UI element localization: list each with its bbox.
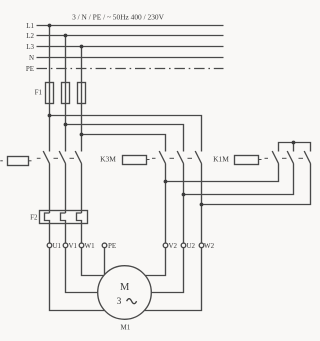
svg-text:L2: L2 xyxy=(26,32,34,40)
svg-text:V1: V1 xyxy=(69,242,78,250)
svg-text:3: 3 xyxy=(117,297,122,307)
svg-text:3 / N / PE / ~ 50Hz 400 / 230V: 3 / N / PE / ~ 50Hz 400 / 230V xyxy=(72,13,165,22)
svg-text:F1: F1 xyxy=(35,89,43,97)
svg-text:W1: W1 xyxy=(85,242,96,250)
svg-text:PE: PE xyxy=(26,65,34,73)
svg-text:PE: PE xyxy=(108,242,116,250)
svg-text:U2: U2 xyxy=(187,242,196,250)
svg-text:N: N xyxy=(29,54,34,62)
svg-text:K3M: K3M xyxy=(100,155,116,164)
svg-text:M: M xyxy=(120,282,130,293)
svg-text:L3: L3 xyxy=(26,43,34,51)
svg-text:M1: M1 xyxy=(121,324,131,332)
svg-text:L1: L1 xyxy=(26,22,34,30)
svg-text:F2: F2 xyxy=(30,213,38,221)
svg-text:K1M: K1M xyxy=(213,155,229,164)
svg-text:W2: W2 xyxy=(204,242,215,250)
svg-text:V2: V2 xyxy=(169,242,178,250)
svg-text:U1: U1 xyxy=(53,242,62,250)
